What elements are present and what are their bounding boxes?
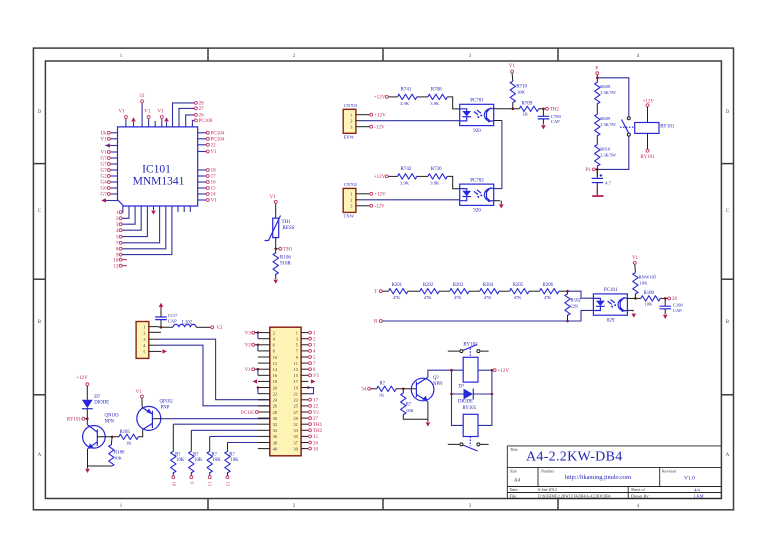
- IC101 left pin G7: [110, 163, 117, 165]
- svg-text:+12V: +12V: [643, 99, 655, 104]
- wire IC101 to node PC106: [192, 120, 194, 127]
- svg-text:A4-2.2KW-DB4: A4-2.2KW-DB4: [526, 450, 623, 465]
- svg-text:PC701: PC701: [470, 99, 484, 104]
- connector CN702: [343, 188, 356, 212]
- svg-text:PC101: PC101: [604, 288, 618, 293]
- wire pin2 stub: [149, 331, 161, 333]
- power arrow at PC101 emitter: [632, 314, 637, 318]
- wire C700 to ground: [542, 119, 544, 125]
- IC101 bottom power arrow: [153, 206, 155, 210]
- relay coil RY105: [463, 414, 478, 436]
- svg-text:12: 12: [113, 264, 119, 269]
- node 27 at right pin 29: [309, 417, 312, 420]
- svg-text:R?: R?: [175, 452, 180, 457]
- svg-text:R610: R610: [600, 147, 611, 152]
- power arrow QN103 emitter: [85, 469, 90, 473]
- svg-text:9: 9: [189, 482, 194, 485]
- IC101 top pin V1 b: [148, 119, 150, 127]
- wire bracket pins 2-4: [257, 333, 259, 339]
- node RY101 net: [646, 149, 649, 152]
- svg-text:3.3K/5W: 3.3K/5W: [600, 90, 616, 95]
- svg-text:V1: V1: [632, 256, 639, 261]
- svg-text:3.9K: 3.9K: [400, 101, 410, 106]
- svg-text:R206: R206: [543, 283, 554, 288]
- node 12 stub: [119, 264, 122, 267]
- svg-text:TH2: TH2: [550, 108, 560, 113]
- svg-text:920: 920: [473, 129, 481, 134]
- wire IC101 pin to node 3: [123, 206, 136, 224]
- svg-text:1: 1: [120, 54, 123, 59]
- wire cap to ground bar: [596, 183, 598, 195]
- svg-text:R608: R608: [600, 84, 611, 89]
- wire IC101 pin to node 4: [123, 206, 142, 230]
- wire emitter to ground: [427, 401, 429, 419]
- connector right stubs: [301, 332, 308, 334]
- wire P to chain: [596, 75, 598, 83]
- svg-text:1: 1: [116, 211, 119, 216]
- wire PC701 collector to R709 node: [494, 108, 513, 110]
- wire L102 to V2: [196, 326, 210, 328]
- svg-text:PC105: PC105: [241, 411, 255, 416]
- svg-text:2: 2: [273, 330, 275, 335]
- transistor Q? NPN: [411, 378, 434, 401]
- title block frame: [507, 446, 721, 499]
- svg-text:1: 1: [120, 504, 123, 509]
- svg-text:3.9K: 3.9K: [400, 180, 410, 185]
- resistor R? 10K pulldown 13: [207, 451, 212, 472]
- node TH1 at right pin 31: [309, 423, 312, 426]
- IC101 right pin 15: [198, 187, 207, 189]
- wire pin4 to 40pin pin26: [149, 344, 157, 346]
- optocoupler PC701: [460, 104, 494, 125]
- svg-text:Number: Number: [541, 468, 555, 473]
- power arrow below R106: [273, 280, 278, 284]
- svg-text:D?: D?: [459, 385, 465, 390]
- svg-text:47K: 47K: [424, 295, 432, 300]
- svg-text:8: 8: [313, 368, 316, 373]
- svg-text:CAP: CAP: [168, 319, 177, 324]
- border row ticks: [33, 163, 45, 165]
- svg-text:+12V: +12V: [76, 376, 88, 381]
- wire RY101 coil to node RY101: [647, 133, 649, 149]
- svg-text:+12V: +12V: [374, 113, 386, 118]
- svg-text:B: B: [726, 320, 730, 325]
- IC101 chamfer pin arrow: [105, 200, 118, 202]
- svg-text:3.3K/5W: 3.3K/5W: [600, 122, 616, 127]
- resistor R? 10K pulldown base: [402, 389, 404, 393]
- resistor R202 47K: [420, 289, 439, 294]
- svg-text:V1: V1: [157, 110, 164, 115]
- svg-text:R741: R741: [401, 88, 412, 93]
- svg-text:47K: 47K: [393, 295, 401, 300]
- svg-text:32: 32: [273, 422, 277, 427]
- resistor R610 3.3K/5W: [595, 145, 600, 166]
- resistor R608 3.3K/5W: [595, 82, 600, 103]
- svg-text:21: 21: [294, 391, 298, 396]
- wire: [529, 290, 540, 292]
- svg-text:L102: L102: [182, 321, 193, 326]
- connector CN bottom-left: [136, 322, 149, 359]
- wire QP102 base to pin30: [152, 418, 163, 420]
- svg-text:V1: V1: [136, 390, 143, 395]
- svg-text:R708: R708: [431, 88, 442, 93]
- svg-text:PC702: PC702: [470, 178, 484, 183]
- svg-text:33: 33: [139, 94, 145, 99]
- svg-text:G7: G7: [100, 193, 107, 198]
- node junction top of R102: [566, 290, 569, 293]
- connector left stubs: [258, 332, 270, 334]
- svg-text:R205: R205: [513, 283, 524, 288]
- wire +12V to RY101 coil: [647, 107, 649, 123]
- svg-text:8: 8: [116, 248, 119, 253]
- svg-text:PC106: PC106: [199, 119, 213, 124]
- svg-text:3: 3: [116, 223, 119, 228]
- IC101 left pin V1: [110, 151, 117, 153]
- wire R608 to R609: [596, 103, 598, 114]
- svg-text:DIODE: DIODE: [94, 401, 109, 406]
- IC101 right pin PC104: [198, 138, 207, 140]
- svg-text:R?: R?: [380, 381, 385, 386]
- svg-text:26: 26: [672, 297, 678, 302]
- node 7 at right pin 11: [309, 362, 312, 365]
- wire 40pin row to pulldown at node 12: [228, 442, 258, 444]
- svg-text:Title: Title: [510, 447, 518, 452]
- wire pin5 stub arrow: [149, 350, 162, 352]
- svg-text:4.7: 4.7: [605, 180, 611, 185]
- node rail A: [450, 369, 453, 372]
- wire bracket right pins 19-21: [307, 386, 310, 389]
- svg-text:10K: 10K: [230, 458, 239, 463]
- node junction R710/R709: [512, 108, 515, 111]
- node 3 at right pin 5: [309, 343, 312, 346]
- wire C117 to power: [160, 308, 162, 317]
- wire 40pin row to pulldown at node 10: [173, 423, 258, 425]
- svg-text:5: 5: [116, 235, 119, 240]
- svg-text:P: P: [595, 67, 598, 72]
- wire R736 to PC702 anode: [447, 176, 460, 188]
- svg-text:12: 12: [226, 482, 231, 487]
- svg-text:RY101: RY101: [660, 124, 675, 129]
- node RY101 into QN103: [86, 417, 89, 420]
- svg-text:27: 27: [199, 107, 205, 112]
- svg-text:http://likaming.jimdo.com: http://likaming.jimdo.com: [565, 474, 631, 481]
- svg-text:R202: R202: [423, 283, 434, 288]
- node 2 at right pin 3: [309, 337, 312, 340]
- CN703 pin1 wire to +12V: [356, 114, 370, 116]
- capacitor electrolytic 4.7 at P1: [596, 169, 598, 178]
- svg-text:910R: 910R: [280, 261, 292, 266]
- op-amp U1 IC101 body: [118, 127, 198, 206]
- node 17 at right pin 23: [309, 398, 312, 401]
- sheet border outer: [33, 48, 733, 510]
- wire IC101 pin to node 1: [122, 206, 124, 212]
- svg-text:C117: C117: [168, 313, 178, 318]
- IC101 right pin 16: [198, 181, 207, 183]
- node V2: [211, 326, 214, 329]
- svg-text:30K: 30K: [517, 90, 526, 95]
- resistor R609 3.3K/5W: [595, 114, 600, 135]
- node 26 mid: [668, 297, 671, 300]
- resistor R710 30K: [510, 81, 515, 102]
- CN703 pin3 wire to -12V: [356, 126, 370, 128]
- svg-text:R?: R?: [229, 452, 234, 457]
- svg-text:Sheet of: Sheet of: [631, 487, 645, 492]
- svg-text:R100: R100: [644, 291, 655, 296]
- svg-text:22: 22: [273, 391, 277, 396]
- svg-text:12: 12: [273, 361, 277, 366]
- svg-text:10K: 10K: [645, 302, 654, 307]
- wire R to base: [396, 388, 416, 390]
- svg-text:Revision: Revision: [662, 468, 676, 473]
- wire IC101 pin to node 7: [123, 206, 160, 243]
- svg-text:18: 18: [313, 447, 319, 452]
- wire rail A down to diode: [452, 370, 464, 425]
- svg-text:2: 2: [293, 504, 296, 509]
- power arrow below C700: [541, 125, 546, 129]
- svg-text:47K: 47K: [514, 295, 522, 300]
- svg-text:R: R: [374, 319, 378, 324]
- connector 40-pin header: [270, 327, 301, 456]
- svg-text:3: 3: [469, 504, 472, 509]
- node V1 at right pin 27: [309, 411, 312, 414]
- wire R106 to power: [275, 274, 277, 279]
- IC101 left pin V1: [110, 138, 117, 140]
- diode D7 relay clamp: [450, 393, 453, 396]
- wire pulldown to node 12: [227, 472, 229, 475]
- svg-text:4: 4: [637, 504, 640, 509]
- svg-text:DIODE: DIODE: [458, 399, 473, 404]
- IC101 top pin V1 a: [125, 119, 127, 127]
- svg-text:28: 28: [199, 102, 205, 107]
- arrow at right pin17: [311, 379, 316, 383]
- resistor R186 10K: [110, 437, 113, 445]
- svg-text:Size: Size: [510, 468, 517, 473]
- IC101 left pin arrow: [110, 145, 117, 147]
- node junction C117: [160, 326, 163, 329]
- svg-text:+12V: +12V: [374, 193, 386, 198]
- svg-text:+12V: +12V: [374, 175, 386, 180]
- svg-text:V1: V1: [509, 64, 516, 69]
- wire pulldown to node 13: [209, 472, 211, 475]
- svg-text:-12V: -12V: [374, 125, 385, 130]
- svg-text:V1.0: V1.0: [684, 476, 695, 482]
- wire relay contact branch: [597, 78, 629, 170]
- svg-text:1: 1: [143, 325, 145, 330]
- svg-text:NPN: NPN: [105, 419, 115, 424]
- svg-text:QN103: QN103: [105, 414, 120, 419]
- node 10 stub: [119, 258, 122, 261]
- wire: [469, 290, 480, 292]
- svg-text:17: 17: [313, 399, 319, 404]
- svg-text:TH2: TH2: [313, 429, 323, 434]
- node 4 at right pin 7: [309, 349, 312, 352]
- resistor R100 10K: [635, 297, 641, 299]
- svg-text:26: 26: [313, 441, 319, 446]
- wire IC101 pin to node 5: [123, 206, 148, 237]
- svg-text:D: D: [38, 110, 42, 115]
- diode D7 vertical: [82, 400, 93, 408]
- svg-text:V1: V1: [211, 150, 218, 155]
- node TH1 tap: [274, 248, 277, 251]
- svg-text:D: D: [726, 110, 730, 115]
- IC101 left pin Uk: [110, 132, 117, 134]
- svg-text:TXW: TXW: [344, 214, 355, 219]
- IC101 right pin 18: [198, 169, 207, 171]
- IC101 left pin G6: [110, 187, 117, 189]
- connector CN703: [343, 109, 356, 133]
- wire 10K to emitter node: [403, 414, 428, 419]
- power arrow at PC702 emitter: [499, 204, 504, 208]
- svg-text:31: 31: [294, 422, 298, 427]
- svg-text:R736: R736: [431, 167, 442, 172]
- svg-text:2: 2: [313, 338, 316, 343]
- wire pulldown to node 9: [190, 472, 192, 475]
- resistor R708 3.9K: [428, 94, 447, 99]
- svg-text:P1: P1: [586, 168, 592, 173]
- wire R741 to R708: [417, 96, 428, 98]
- wire R100 to node 26: [660, 297, 667, 299]
- node TH2: [542, 108, 545, 111]
- wire rail B down to diode: [478, 370, 492, 425]
- svg-text:V1: V1: [245, 368, 252, 373]
- node 8 at right pin 13: [309, 368, 312, 371]
- svg-text:22: 22: [211, 144, 217, 149]
- svg-text:R106: R106: [280, 255, 291, 260]
- svg-text:4: 4: [116, 229, 119, 234]
- wire PC702 emitter to ground: [494, 200, 501, 202]
- svg-text:QP102: QP102: [160, 400, 174, 405]
- svg-text:TH1: TH1: [313, 423, 323, 428]
- node 26 at right pin 37: [309, 441, 312, 444]
- svg-text:1: 1: [296, 330, 298, 335]
- power arrow below C100: [663, 315, 668, 319]
- wire IC101 to node 27: [179, 108, 194, 127]
- wire junction to PC101 anode: [568, 291, 594, 298]
- svg-text:47K: 47K: [544, 295, 552, 300]
- wire +12V to D7: [86, 386, 88, 400]
- svg-text:NPN: NPN: [433, 382, 443, 387]
- svg-text:6-Jan-2012: 6-Jan-2012: [538, 487, 557, 492]
- resistor R201 47K: [389, 289, 408, 294]
- svg-text:22K: 22K: [571, 303, 580, 308]
- svg-text:V1: V1: [313, 374, 320, 379]
- svg-text:2: 2: [350, 119, 352, 124]
- svg-text:1: 1: [350, 192, 352, 197]
- svg-text:3.3K/5W: 3.3K/5W: [600, 153, 616, 158]
- svg-text:CN702: CN702: [344, 182, 358, 187]
- svg-text:B: B: [38, 320, 42, 325]
- node V2 at pin6: [257, 344, 260, 347]
- svg-text:V1: V1: [269, 195, 276, 200]
- resistor R? 10K pulldown 12: [225, 451, 230, 472]
- power arrow emitter ground: [426, 422, 431, 426]
- svg-text:R709: R709: [522, 101, 533, 106]
- svg-text:4: 4: [637, 54, 640, 59]
- svg-text:File:: File:: [510, 493, 518, 498]
- node V3 at pin2: [257, 331, 260, 334]
- svg-text:3: 3: [469, 54, 472, 59]
- wire R710 to junction: [512, 102, 514, 109]
- node 1 at right pin 1: [309, 331, 312, 334]
- sheet border inner: [45, 61, 721, 499]
- svg-text:7: 7: [116, 242, 119, 247]
- svg-text:V1: V1: [211, 199, 218, 204]
- resistor R102 22K: [567, 291, 569, 294]
- svg-text:16: 16: [211, 181, 217, 186]
- svg-text:2: 2: [350, 198, 352, 203]
- CN702 pin1 wire to +12V: [356, 193, 370, 195]
- wire QN103 emitter to ground: [88, 449, 112, 466]
- wire CN702 pin2 to PC702: [356, 199, 362, 201]
- IC101 right pin V1: [198, 151, 207, 153]
- wire 40pin row to pulldown at node 13: [210, 435, 258, 437]
- svg-text:1: 1: [313, 331, 316, 336]
- svg-text:3: 3: [313, 344, 316, 349]
- node rail B +12V: [491, 369, 494, 372]
- svg-text:-12V: -12V: [374, 205, 385, 210]
- svg-text:V1: V1: [313, 411, 320, 416]
- svg-text:5: 5: [313, 356, 316, 361]
- svg-text:4/4: 4/4: [694, 487, 701, 492]
- svg-text:R?: R?: [193, 452, 198, 457]
- optocoupler PC101: [593, 294, 627, 315]
- relay contact RY101: [627, 117, 630, 120]
- svg-text:C: C: [38, 209, 42, 214]
- transistor QN103 NPN: [83, 426, 106, 449]
- relay contact RY105: [448, 443, 489, 445]
- svg-text:34: 34: [361, 388, 367, 393]
- IC101 bottom stub pins: [177, 206, 179, 212]
- IC101 left pin G7: [110, 193, 117, 195]
- svg-text:IC101: IC101: [142, 164, 171, 176]
- node R bottom junction: [566, 320, 569, 323]
- svg-text:10K: 10K: [194, 458, 203, 463]
- svg-text:27: 27: [313, 417, 319, 422]
- capacitor C700: [542, 109, 544, 116]
- svg-text:15: 15: [211, 187, 217, 192]
- svg-text:V1: V1: [100, 151, 107, 156]
- svg-text:G6: G6: [100, 187, 107, 192]
- IC101 left pin G7: [110, 169, 117, 171]
- capacitor C100: [664, 298, 666, 306]
- svg-text:7: 7: [313, 362, 316, 367]
- IC101 top pin power arrow b: [166, 122, 168, 127]
- wire 40pin row to pulldown at node 9: [191, 429, 258, 431]
- svg-text:829: 829: [607, 318, 615, 323]
- resistor R? 10K pulldown 9: [189, 451, 194, 472]
- IC101 left pin G2: [110, 175, 117, 177]
- resistor R185 1K: [119, 434, 138, 439]
- svg-text:RY101: RY101: [67, 417, 82, 422]
- IC101 right pin 17: [198, 175, 207, 177]
- svg-text:10K: 10K: [640, 280, 649, 285]
- optocoupler PC702: [460, 184, 494, 205]
- relay contact RY102: [448, 350, 489, 352]
- svg-text:920: 920: [473, 209, 481, 214]
- svg-text:V3: V3: [245, 331, 252, 336]
- svg-text:V1: V1: [144, 110, 151, 115]
- svg-text:RNW105: RNW105: [639, 274, 657, 279]
- wire CN703 pin2 to PC701: [356, 120, 362, 122]
- svg-text:14: 14: [211, 193, 217, 198]
- IC101 right pin V1: [198, 199, 207, 201]
- relay coil RY102: [463, 357, 478, 382]
- svg-text:MNM1341: MNM1341: [133, 176, 185, 188]
- svg-text:V2: V2: [245, 344, 252, 349]
- IC101 left pin G7: [110, 157, 117, 159]
- IC101 left pin G4: [110, 181, 117, 183]
- svg-text:V1: V1: [118, 110, 125, 115]
